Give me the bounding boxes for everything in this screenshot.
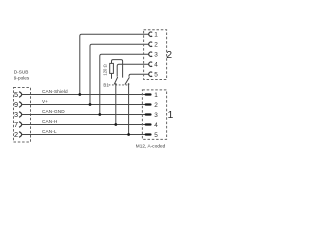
connector 1 pin 1 blade	[145, 93, 152, 95]
switch pole b lower contact	[128, 83, 130, 85]
svg-text:9: 9	[14, 100, 18, 109]
connector 1 pin 5 blade	[145, 133, 152, 135]
svg-text:3: 3	[14, 110, 18, 119]
svg-text:5: 5	[154, 72, 158, 79]
svg-text:7: 7	[14, 120, 18, 129]
svg-text:V+: V+	[42, 99, 48, 104]
wire M12-2 pin 5 to switch upper contact	[129, 74, 149, 77]
svg-text:2: 2	[154, 102, 158, 109]
connector 2 pin 5 socket	[149, 72, 152, 76]
svg-text:5: 5	[154, 132, 158, 139]
connector 2 pin 3 socket	[149, 52, 152, 56]
connector 1 pin 3 blade	[145, 113, 152, 115]
svg-text:5: 5	[14, 90, 18, 99]
connector 2 pin 1 socket	[149, 32, 152, 36]
switch pole a lower contact	[115, 83, 117, 85]
svg-text:120 Ω: 120 Ω	[103, 64, 108, 75]
svg-text:1: 1	[154, 92, 158, 99]
resistor R 120 Ohm	[110, 63, 114, 73]
wire V+ (D-SUB 9 to M12-1 pin 2)	[22, 104, 146, 106]
svg-text:1: 1	[167, 109, 173, 121]
pin 2 contact chevron	[19, 132, 22, 138]
wire resistor top to right switch contact	[112, 60, 123, 78]
wire CAN-L (D-SUB 2 to M12-1 pin 5)	[22, 134, 146, 136]
svg-text:4: 4	[154, 62, 158, 69]
junction on CAN-L	[127, 133, 130, 136]
svg-text:CAN-Shield: CAN-Shield	[42, 89, 68, 94]
junction CAN-GND branch	[98, 113, 101, 116]
wire branch CAN-Shield to M12-2 pin 1	[80, 34, 149, 94]
connector 2 M12 female body (dashed)	[144, 30, 167, 80]
pin 5 contact chevron	[19, 92, 22, 98]
junction V+ branch	[89, 103, 92, 106]
svg-text:2: 2	[14, 130, 18, 139]
junction on CAN-H	[114, 123, 117, 126]
connector X1 D-SUB 9-pole body (dashed)	[14, 88, 31, 143]
connector 1 pin 2 blade	[145, 103, 152, 105]
wire CAN-H (D-SUB 7 to M12-1 pin 4)	[22, 124, 146, 126]
pin 9 contact chevron	[19, 102, 22, 108]
svg-text:B1: B1	[103, 83, 109, 88]
wire M12-2 pin 4 to switch upper contact	[117, 64, 148, 76]
wire CAN-GND (D-SUB 3 to M12-1 pin 3)	[22, 114, 146, 116]
svg-text:1: 1	[154, 32, 158, 39]
wire resistor bottom stub	[111, 73, 113, 78]
pin 3 contact chevron	[19, 112, 22, 118]
switch B1 pole b lever	[125, 77, 129, 84]
connector 2 pin 4 socket	[149, 62, 152, 66]
svg-text:M12, A-coded: M12, A-coded	[136, 143, 166, 148]
wire branch V+ to M12-2 pin 2	[90, 44, 149, 104]
svg-text:3: 3	[154, 52, 158, 59]
junction CAN-Shield branch	[78, 93, 81, 96]
connector 1 pin 4 blade	[145, 123, 152, 125]
svg-text:CAN-GND: CAN-GND	[42, 109, 65, 114]
svg-text:D-SUB: D-SUB	[14, 69, 29, 74]
wire switch pole a to CAN-H	[115, 84, 117, 125]
svg-text:9-poles: 9-poles	[14, 75, 30, 80]
svg-text:2: 2	[166, 49, 172, 61]
pin 7 contact chevron	[19, 122, 22, 128]
wire switch pole b to CAN-L	[128, 84, 130, 135]
svg-text:2: 2	[154, 42, 158, 49]
svg-text:CAN-H: CAN-H	[42, 119, 57, 124]
switch B1 pole a lever	[114, 77, 118, 84]
svg-text:4: 4	[154, 122, 158, 129]
wire branch CAN-GND to M12-2 pin 3	[100, 54, 149, 114]
connector 2 pin 2 socket	[149, 42, 152, 46]
wire CAN-Shield (D-SUB 5 to M12-1 pin 1)	[22, 94, 146, 96]
switch B1 coupling dashed line	[109, 84, 128, 86]
svg-text:CAN-L: CAN-L	[42, 129, 57, 134]
connector 1 M12 male body (dashed)	[142, 90, 166, 139]
svg-text:3: 3	[154, 112, 158, 119]
